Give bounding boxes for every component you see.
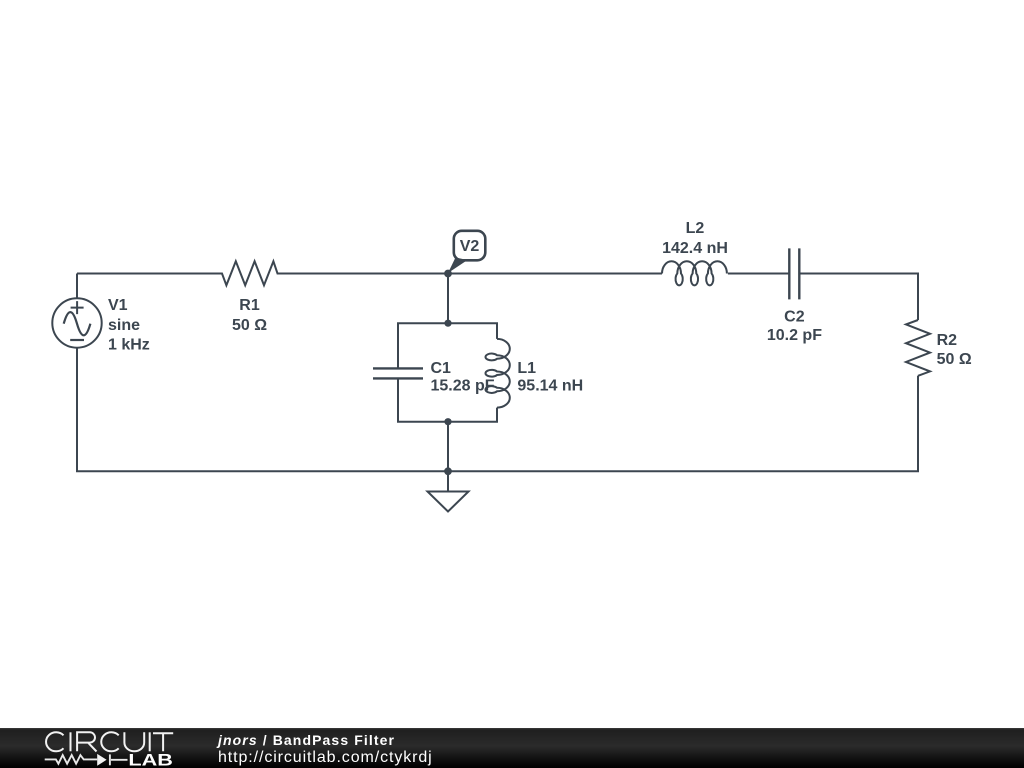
svg-text:50 Ω: 50 Ω <box>232 317 267 334</box>
svg-text:95.14 nH: 95.14 nH <box>517 377 583 394</box>
svg-text:R1: R1 <box>239 297 260 314</box>
svg-text:L1: L1 <box>517 360 536 377</box>
svg-text:LAB: LAB <box>128 752 172 768</box>
svg-text:10.2 pF: 10.2 pF <box>767 327 822 344</box>
svg-text:15.28 pF: 15.28 pF <box>431 377 495 394</box>
svg-text:R2: R2 <box>937 332 958 349</box>
svg-text:sine: sine <box>108 317 140 334</box>
svg-text:C1: C1 <box>431 360 452 377</box>
svg-text:V2: V2 <box>460 238 480 255</box>
svg-text:1 kHz: 1 kHz <box>108 336 150 353</box>
svg-text:V1: V1 <box>108 297 128 314</box>
svg-text:50 Ω: 50 Ω <box>937 351 972 368</box>
svg-text:L2: L2 <box>686 220 705 237</box>
svg-text:142.4 nH: 142.4 nH <box>662 240 728 257</box>
svg-text:C2: C2 <box>784 309 805 326</box>
